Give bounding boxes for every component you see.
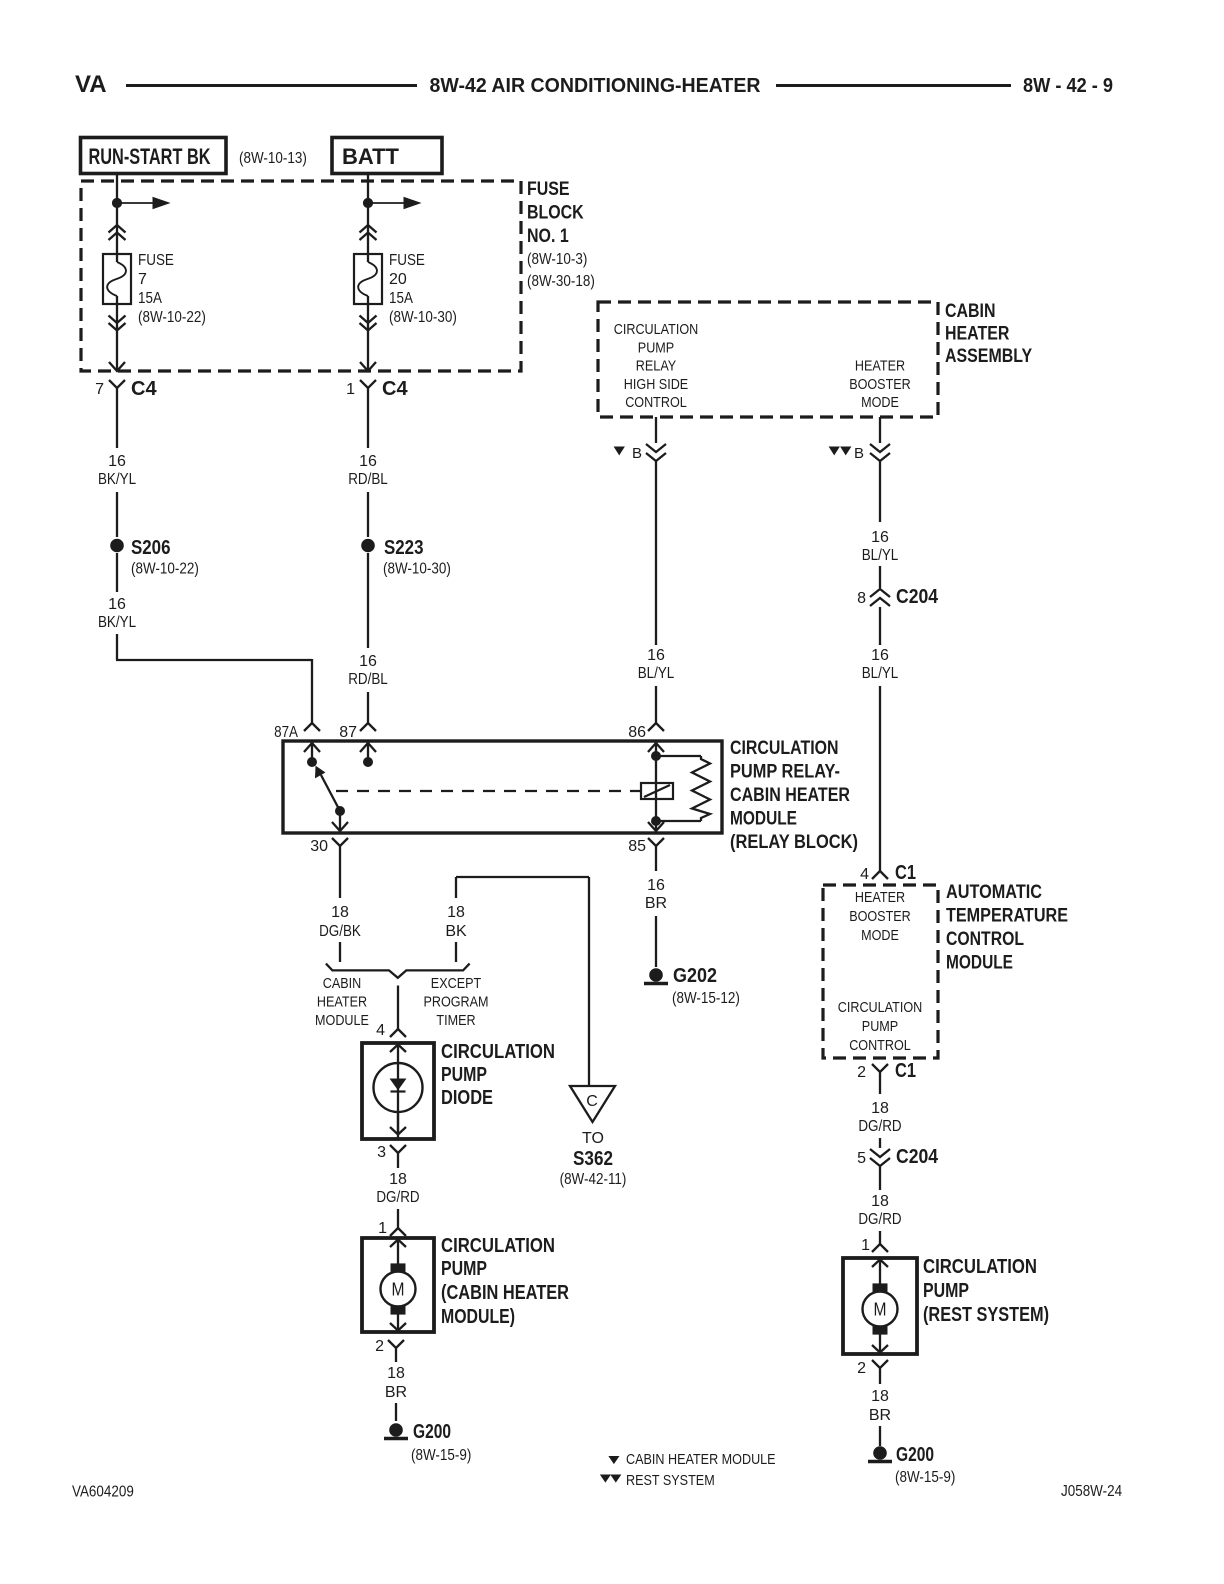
svg-text:(CABIN HEATER: (CABIN HEATER bbox=[441, 1282, 569, 1304]
svg-text:18: 18 bbox=[387, 1365, 405, 1382]
svg-text:M: M bbox=[874, 1300, 887, 1320]
svg-text:7: 7 bbox=[95, 381, 104, 398]
svg-text:DG/RD: DG/RD bbox=[858, 1211, 901, 1228]
svg-text:(8W-15-9): (8W-15-9) bbox=[895, 1469, 955, 1486]
svg-text:16: 16 bbox=[359, 653, 377, 670]
svg-text:(8W-10-13): (8W-10-13) bbox=[239, 150, 307, 167]
svg-text:ASSEMBLY: ASSEMBLY bbox=[945, 346, 1032, 367]
svg-text:18: 18 bbox=[447, 904, 465, 921]
svg-text:BK/YL: BK/YL bbox=[98, 614, 136, 631]
svg-text:C4: C4 bbox=[382, 378, 408, 400]
svg-text:8W-42 AIR CONDITIONING-HEATER: 8W-42 AIR CONDITIONING-HEATER bbox=[430, 75, 762, 97]
svg-text:C204: C204 bbox=[896, 1146, 939, 1168]
svg-text:FUSE: FUSE bbox=[389, 252, 425, 269]
svg-text:30: 30 bbox=[310, 838, 328, 855]
svg-text:S206: S206 bbox=[131, 537, 171, 559]
svg-text:RD/BL: RD/BL bbox=[348, 471, 388, 488]
svg-text:G200: G200 bbox=[413, 1421, 451, 1443]
svg-text:TEMPERATURE: TEMPERATURE bbox=[946, 906, 1068, 927]
svg-text:S362: S362 bbox=[573, 1148, 613, 1170]
svg-text:8: 8 bbox=[857, 590, 866, 607]
svg-text:16: 16 bbox=[647, 877, 665, 894]
svg-text:MODULE: MODULE bbox=[315, 1012, 369, 1029]
svg-text:PUMP: PUMP bbox=[923, 1280, 969, 1302]
svg-text:CABIN: CABIN bbox=[945, 301, 996, 322]
svg-text:MODE: MODE bbox=[861, 394, 899, 411]
svg-text:15A: 15A bbox=[138, 290, 162, 307]
svg-text:CONTROL: CONTROL bbox=[849, 1037, 911, 1054]
svg-text:CABIN: CABIN bbox=[323, 975, 362, 992]
svg-text:BL/YL: BL/YL bbox=[862, 665, 899, 682]
svg-text:15A: 15A bbox=[389, 290, 413, 307]
svg-text:S223: S223 bbox=[384, 537, 424, 559]
svg-text:AUTOMATIC: AUTOMATIC bbox=[946, 882, 1042, 903]
svg-text:87: 87 bbox=[339, 724, 357, 741]
svg-text:CIRCULATION: CIRCULATION bbox=[838, 999, 923, 1016]
svg-text:RD/BL: RD/BL bbox=[348, 671, 388, 688]
svg-text:B: B bbox=[854, 445, 864, 462]
svg-text:16: 16 bbox=[108, 596, 126, 613]
svg-text:(8W-15-9): (8W-15-9) bbox=[411, 1447, 471, 1464]
svg-text:BR: BR bbox=[385, 1384, 407, 1401]
svg-text:PUMP: PUMP bbox=[441, 1258, 487, 1280]
svg-text:TIMER: TIMER bbox=[436, 1012, 475, 1029]
svg-text:CABIN HEATER MODULE: CABIN HEATER MODULE bbox=[626, 1451, 776, 1468]
svg-text:(8W-10-3): (8W-10-3) bbox=[527, 251, 587, 268]
svg-text:NO. 1: NO. 1 bbox=[527, 226, 569, 247]
svg-text:REST SYSTEM: REST SYSTEM bbox=[626, 1472, 715, 1489]
svg-text:DIODE: DIODE bbox=[441, 1087, 493, 1109]
svg-text:MODULE): MODULE) bbox=[441, 1306, 515, 1328]
svg-text:HEATER: HEATER bbox=[945, 324, 1010, 345]
svg-text:16: 16 bbox=[108, 453, 126, 470]
svg-text:C1: C1 bbox=[895, 1060, 916, 1082]
svg-text:G202: G202 bbox=[673, 965, 717, 987]
svg-text:BR: BR bbox=[645, 895, 667, 912]
svg-text:C: C bbox=[586, 1093, 598, 1110]
svg-text:BLOCK: BLOCK bbox=[527, 203, 584, 224]
svg-text:CIRCULATION: CIRCULATION bbox=[614, 321, 699, 338]
svg-text:4: 4 bbox=[376, 1022, 385, 1039]
svg-text:FUSE: FUSE bbox=[527, 179, 570, 200]
svg-text:BR: BR bbox=[869, 1407, 891, 1424]
svg-text:(8W-15-12): (8W-15-12) bbox=[672, 990, 740, 1007]
svg-text:3: 3 bbox=[377, 1144, 386, 1161]
svg-text:BOOSTER: BOOSTER bbox=[849, 908, 911, 925]
svg-text:DG/RD: DG/RD bbox=[376, 1189, 419, 1206]
svg-text:18: 18 bbox=[871, 1193, 889, 1210]
svg-text:PUMP: PUMP bbox=[862, 1018, 898, 1035]
svg-text:(8W-10-30): (8W-10-30) bbox=[383, 561, 451, 578]
svg-text:1: 1 bbox=[378, 1220, 387, 1237]
svg-text:MODE: MODE bbox=[861, 927, 899, 944]
svg-text:(RELAY BLOCK): (RELAY BLOCK) bbox=[730, 832, 858, 853]
svg-text:M: M bbox=[392, 1280, 405, 1300]
svg-text:(8W-10-22): (8W-10-22) bbox=[138, 309, 206, 326]
svg-text:G200: G200 bbox=[896, 1444, 934, 1466]
svg-text:16: 16 bbox=[647, 647, 665, 664]
svg-text:2: 2 bbox=[857, 1064, 866, 1081]
svg-text:PUMP: PUMP bbox=[441, 1064, 487, 1086]
svg-text:16: 16 bbox=[871, 529, 889, 546]
svg-text:BK: BK bbox=[445, 923, 467, 940]
svg-text:BL/YL: BL/YL bbox=[638, 665, 675, 682]
svg-text:HEATER: HEATER bbox=[855, 358, 905, 375]
svg-text:BOOSTER: BOOSTER bbox=[849, 376, 911, 393]
svg-text:20: 20 bbox=[389, 271, 407, 288]
svg-text:CONTROL: CONTROL bbox=[625, 394, 687, 411]
svg-text:(8W-30-18): (8W-30-18) bbox=[527, 273, 595, 290]
svg-text:HEATER: HEATER bbox=[855, 889, 905, 906]
svg-text:4: 4 bbox=[860, 866, 869, 883]
svg-text:16: 16 bbox=[871, 647, 889, 664]
svg-text:CIRCULATION: CIRCULATION bbox=[441, 1235, 555, 1257]
svg-text:CABIN HEATER: CABIN HEATER bbox=[730, 785, 850, 806]
svg-text:VA: VA bbox=[75, 71, 107, 98]
svg-text:RELAY: RELAY bbox=[636, 358, 676, 375]
svg-text:PROGRAM: PROGRAM bbox=[423, 993, 488, 1010]
svg-text:BATT: BATT bbox=[342, 144, 400, 169]
svg-text:FUSE: FUSE bbox=[138, 252, 174, 269]
svg-text:18: 18 bbox=[331, 904, 349, 921]
svg-text:EXCEPT: EXCEPT bbox=[431, 975, 481, 992]
svg-text:18: 18 bbox=[871, 1100, 889, 1117]
svg-text:(8W-42-11): (8W-42-11) bbox=[560, 1171, 627, 1188]
svg-text:2: 2 bbox=[375, 1338, 384, 1355]
svg-text:7: 7 bbox=[138, 271, 147, 288]
svg-text:CONTROL: CONTROL bbox=[946, 929, 1024, 950]
svg-text:HEATER: HEATER bbox=[317, 993, 367, 1010]
svg-text:CIRCULATION: CIRCULATION bbox=[441, 1041, 555, 1063]
svg-text:85: 85 bbox=[628, 838, 646, 855]
svg-text:RUN-START BK: RUN-START BK bbox=[89, 144, 211, 169]
svg-text:CIRCULATION: CIRCULATION bbox=[730, 738, 839, 759]
svg-text:DG/RD: DG/RD bbox=[858, 1118, 901, 1135]
svg-text:VA604209: VA604209 bbox=[72, 1484, 134, 1501]
svg-text:C1: C1 bbox=[895, 862, 916, 884]
svg-text:(REST SYSTEM): (REST SYSTEM) bbox=[923, 1304, 1049, 1326]
svg-text:1: 1 bbox=[346, 381, 355, 398]
svg-text:BK/YL: BK/YL bbox=[98, 471, 136, 488]
svg-text:CIRCULATION: CIRCULATION bbox=[923, 1256, 1037, 1278]
svg-text:B: B bbox=[632, 445, 642, 462]
svg-text:1: 1 bbox=[861, 1237, 870, 1254]
svg-text:DG/BK: DG/BK bbox=[319, 923, 361, 940]
svg-text:MODULE: MODULE bbox=[730, 809, 797, 830]
svg-text:8W - 42 - 9: 8W - 42 - 9 bbox=[1023, 75, 1113, 97]
svg-text:PUMP: PUMP bbox=[638, 339, 674, 356]
svg-text:J058W-24: J058W-24 bbox=[1061, 1483, 1122, 1500]
svg-text:86: 86 bbox=[628, 724, 646, 741]
svg-text:(8W-10-30): (8W-10-30) bbox=[389, 309, 457, 326]
svg-text:TO: TO bbox=[582, 1130, 604, 1147]
svg-text:16: 16 bbox=[359, 453, 377, 470]
svg-text:5: 5 bbox=[857, 1150, 866, 1167]
svg-text:BL/YL: BL/YL bbox=[862, 547, 899, 564]
svg-text:HIGH SIDE: HIGH SIDE bbox=[624, 376, 688, 393]
svg-text:2: 2 bbox=[857, 1360, 866, 1377]
svg-text:18: 18 bbox=[389, 1171, 407, 1188]
svg-text:MODULE: MODULE bbox=[946, 953, 1013, 974]
svg-text:18: 18 bbox=[871, 1388, 889, 1405]
svg-text:87A: 87A bbox=[274, 724, 298, 741]
svg-text:C4: C4 bbox=[131, 378, 157, 400]
svg-text:C204: C204 bbox=[896, 586, 939, 608]
svg-text:PUMP RELAY-: PUMP RELAY- bbox=[730, 762, 840, 783]
svg-text:(8W-10-22): (8W-10-22) bbox=[131, 561, 199, 578]
